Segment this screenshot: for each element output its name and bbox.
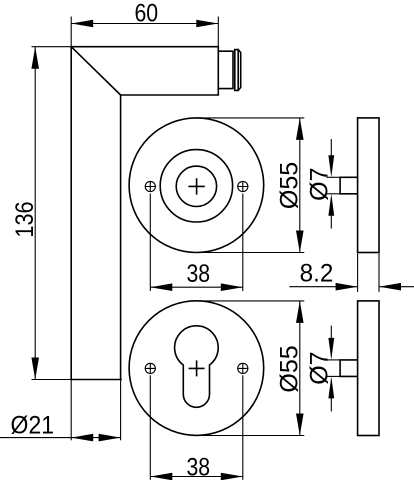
svg-text:60: 60: [134, 0, 158, 27]
dim O21 arrows: [71, 434, 93, 442]
rose 2 center cross: [189, 360, 205, 376]
dim O55 upper arrows: [296, 118, 304, 140]
dim 38 upper extension lines: [149, 194, 151, 292]
svg-text:Ø55: Ø55: [276, 162, 304, 209]
svg-text:38: 38: [186, 453, 210, 480]
side view rose 1: [358, 118, 379, 253]
dim 38 lower arrows: [150, 473, 172, 480]
rose 2 outer circle: [129, 301, 264, 436]
dim O21 extension lines: [70, 380, 72, 441]
dim O55 lower arrows: [296, 301, 304, 323]
dim 38 lower extension lines: [149, 375, 151, 480]
side view rose 2 spindle stub: [340, 360, 358, 377]
dim 60 line: [71, 23, 218, 25]
dim 8.2 extension lines: [357, 254, 359, 292]
handle collar ring: [235, 50, 238, 91]
svg-text:8.2: 8.2: [300, 260, 334, 287]
rose 2 euro-profile keyhole: [175, 326, 219, 408]
svg-text:Ø7: Ø7: [305, 351, 333, 384]
dim O55 lower extension lines: [199, 300, 304, 302]
rose 1 left screw: [145, 181, 156, 192]
dim O55 upper line: [299, 118, 301, 253]
rose 1 center cross: [188, 178, 204, 194]
side view rose 2: [358, 301, 379, 436]
svg-text:Ø7: Ø7: [305, 168, 333, 201]
dim O55 upper extension lines: [196, 117, 304, 119]
dim 38 lower line: [150, 476, 243, 478]
rose 1 right screw: [238, 181, 249, 192]
dim 136 bottom extension: [32, 379, 123, 381]
dim O55 lower line: [299, 301, 301, 436]
dim 60 extension lines: [70, 17, 72, 47]
dim 38 upper line: [150, 286, 243, 288]
dim O7 lower extension ticks: [327, 359, 341, 361]
dim 60 arrows: [71, 20, 93, 28]
dim O21 line: [0, 437, 121, 439]
rose 2 left screw: [145, 363, 156, 374]
dim 136 line: [34, 47, 36, 380]
svg-text:38: 38: [186, 259, 210, 287]
dim 136 top extension: [32, 46, 72, 48]
dim O7 upper arrows: [330, 139, 332, 160]
svg-text:Ø21: Ø21: [11, 412, 54, 440]
rose 1 inner circle: [176, 166, 216, 206]
dim 38 upper arrows: [150, 283, 172, 291]
handle miter line: [71, 47, 120, 95]
svg-text:136: 136: [11, 201, 39, 237]
rose 2 right screw: [238, 363, 249, 374]
side view rose 1 spindle stub: [340, 177, 358, 194]
handle end cap: [238, 50, 241, 91]
rose 1 middle circle: [160, 150, 232, 222]
dim O7 lower arrows: [330, 326, 332, 343]
rose 1 outer circle: [129, 118, 264, 253]
handle neck: [218, 51, 233, 88]
dim 136 arrows: [31, 47, 39, 69]
dim O7 upper extension ticks: [327, 176, 341, 178]
svg-text:Ø55: Ø55: [276, 345, 304, 392]
dim 8.2 right leader with arrow: [379, 286, 414, 288]
dim 8.2 left leader with arrow: [289, 286, 357, 288]
handle outline (front view L-shape lever): [71, 47, 218, 380]
